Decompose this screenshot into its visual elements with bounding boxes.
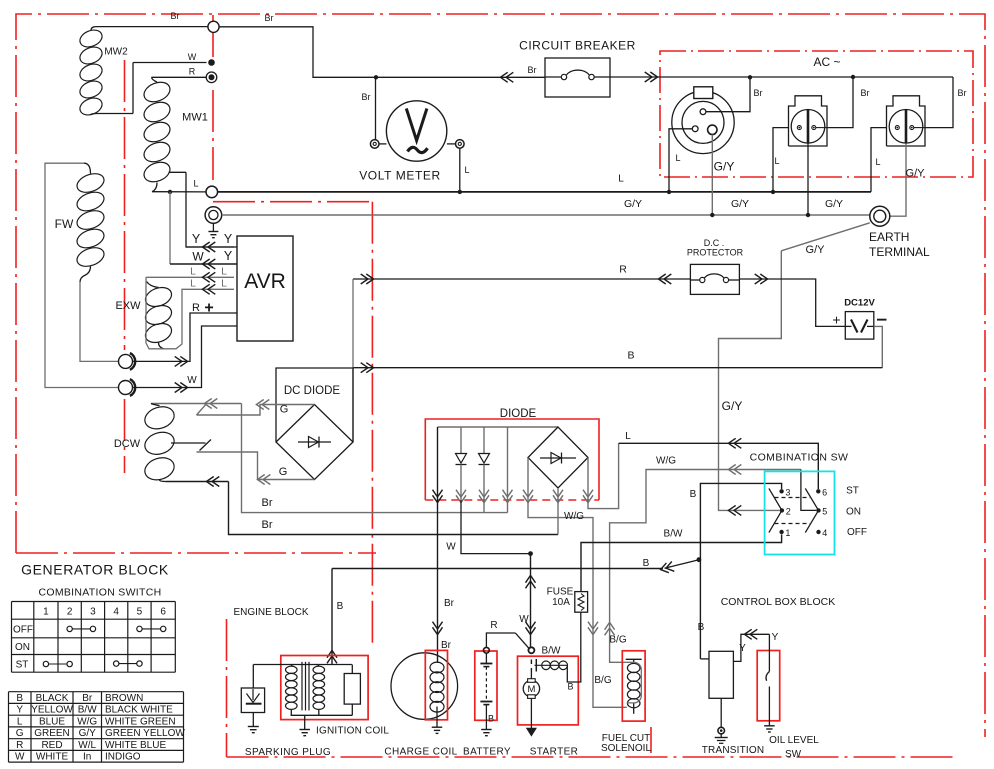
svg-text:MW1: MW1 xyxy=(182,112,208,124)
arrow B diagonal xyxy=(666,562,674,572)
svg-text:B: B xyxy=(698,622,705,633)
svg-text:L: L xyxy=(464,165,469,175)
svg-text:L: L xyxy=(675,153,680,163)
svg-text:Y: Y xyxy=(772,632,779,643)
svg-text:CIRCUIT BREAKER: CIRCUIT BREAKER xyxy=(519,39,636,53)
node B junction xyxy=(697,557,702,562)
svg-text:YELLOW: YELLOW xyxy=(31,705,73,716)
winding EXW xyxy=(143,282,174,349)
wire outlet3 bar to earth terminal xyxy=(890,143,906,216)
node outlet2-L junction xyxy=(771,190,775,194)
svg-text:G: G xyxy=(279,466,288,478)
wire bridge2 right to L line xyxy=(588,443,619,508)
winding MW1 xyxy=(141,77,186,191)
diode bridge diamond 2 xyxy=(528,427,588,488)
svg-text:WHITE BLUE: WHITE BLUE xyxy=(105,740,166,751)
oil level switch contact xyxy=(766,634,769,726)
svg-text:G/Y: G/Y xyxy=(624,198,642,210)
node Br tap outlet2 xyxy=(851,75,855,79)
switch coupling dashed links xyxy=(775,498,810,524)
node outlet1-L junction xyxy=(667,190,671,194)
wire MW1 bottom to L terminal xyxy=(152,191,206,193)
svg-text:COMBINATION SW: COMBINATION SW xyxy=(750,452,849,464)
label FUSE 10A xyxy=(547,587,574,608)
arrow W down xyxy=(526,622,536,629)
arrow bridge-right xyxy=(583,490,593,497)
labels G/Y on ground line xyxy=(624,198,843,210)
arrow Y xyxy=(750,629,757,639)
svg-text:DCW: DCW xyxy=(114,438,141,450)
svg-text:BATTERY: BATTERY xyxy=(463,747,511,758)
battery red box xyxy=(475,651,497,720)
wire DCW middle tap with break xyxy=(171,440,211,451)
node W junction xyxy=(528,551,533,556)
starter contact gap xyxy=(530,660,532,681)
svg-text:AC ~: AC ~ xyxy=(813,55,840,69)
winding MW2 xyxy=(77,27,206,118)
wire diode leg 1 (to charge coil) xyxy=(437,427,439,663)
battery cell symbol xyxy=(480,653,492,729)
svg-text:STARTER: STARTER xyxy=(530,747,579,758)
svg-text:ST: ST xyxy=(846,486,859,497)
svg-text:+: + xyxy=(204,300,213,317)
node L/voltmeter junction xyxy=(458,190,462,194)
svg-text:B: B xyxy=(690,489,697,500)
svg-text:SOLENOIL: SOLENOIL xyxy=(601,743,651,754)
svg-text:B: B xyxy=(16,693,23,704)
wire G/Y down to combination switch xyxy=(719,251,782,511)
svg-text:OFF: OFF xyxy=(847,527,867,538)
svg-text:D.C .: D.C . xyxy=(704,238,725,248)
wire EXW top to AVR L input xyxy=(146,277,234,349)
svg-text:Br: Br xyxy=(171,11,180,21)
svg-text:DC12V: DC12V xyxy=(844,298,875,309)
svg-text:INDIGO: INDIGO xyxy=(105,752,141,763)
node outlet2-GY junction xyxy=(806,213,810,217)
wire grey Br riser (DCW top to diode block) xyxy=(242,404,508,513)
label - xyxy=(877,319,887,321)
svg-text:G/Y: G/Y xyxy=(722,399,743,413)
wire DCW bottom lead to Br line xyxy=(166,482,558,535)
wire FW bottom lead to connector 1 xyxy=(80,282,118,361)
op-amp block AVR (regulator box) xyxy=(237,236,293,341)
wire AVR W input xyxy=(234,325,237,327)
arrow row Y xyxy=(208,242,215,252)
svg-text:VOLT METER: VOLT METER xyxy=(359,169,441,183)
arrow B ignition xyxy=(327,656,337,663)
wire L line (main) xyxy=(218,191,871,193)
svg-text:W: W xyxy=(15,752,25,763)
svg-text:Br: Br xyxy=(82,693,93,704)
ground starter (arrow) xyxy=(527,728,536,735)
svg-text:B/W: B/W xyxy=(542,646,561,657)
volt meter V xyxy=(386,101,446,161)
wire W/G to combination switch pin5 xyxy=(610,470,817,663)
svg-text:1: 1 xyxy=(785,528,790,538)
svg-text:W: W xyxy=(446,542,456,553)
arrow G top wire xyxy=(262,400,269,410)
wire B to ignition coil xyxy=(331,569,333,665)
arrow W/G down xyxy=(588,622,598,629)
ground under G/Y terminal xyxy=(208,223,218,237)
charge coil winding xyxy=(430,662,444,727)
wire DC12V minus to B line xyxy=(874,326,883,367)
svg-text:G: G xyxy=(16,728,24,739)
volt meter left terminal xyxy=(370,140,386,149)
fuel cut solenoid coil xyxy=(626,659,642,714)
wire B diagonal switch contact xyxy=(665,560,699,569)
arrow row L1 xyxy=(208,272,215,282)
svg-text:OIL LEVEL: OIL LEVEL xyxy=(769,735,819,746)
svg-text:W: W xyxy=(519,614,529,625)
DC12V outlet box xyxy=(845,312,874,340)
svg-text:G: G xyxy=(280,404,289,416)
outlet socket 2 (square) xyxy=(789,96,828,146)
svg-text:G/Y: G/Y xyxy=(806,244,826,256)
svg-text:OFF: OFF xyxy=(13,625,33,636)
wire Br terminal to circuit breaker line xyxy=(219,27,545,78)
svg-text:Y: Y xyxy=(739,643,746,654)
arrow bridge-bottom xyxy=(553,490,563,497)
svg-text:5: 5 xyxy=(137,607,143,618)
wire EXW bottom to AVR L input xyxy=(170,289,234,349)
svg-text:BLUE: BLUE xyxy=(39,717,65,728)
terminal R (dot with ring) xyxy=(206,72,217,83)
wire B line (rectifier box to DC12V) xyxy=(353,367,882,369)
wire W from diode D1 to starter xyxy=(461,500,531,554)
wire outlet3 left pin to L line end xyxy=(871,128,887,192)
wire Br from MW2 to terminal xyxy=(96,26,208,28)
svg-text:R: R xyxy=(619,264,627,276)
starter solenoid coil xyxy=(535,659,568,672)
oil level switch red box xyxy=(757,651,780,721)
outlet socket 3 (square) xyxy=(887,96,926,146)
svg-text:2: 2 xyxy=(67,607,73,618)
starter red box xyxy=(518,656,579,725)
terminal G/Y (double circle) xyxy=(205,207,222,224)
svg-text:Br: Br xyxy=(262,497,273,509)
wire breaker to AC outlets xyxy=(610,76,953,78)
wire colour legend table xyxy=(9,692,186,763)
svg-text:B: B xyxy=(488,714,494,724)
ground charge coil xyxy=(432,726,443,728)
charge coil red box xyxy=(425,650,447,719)
arrow DCW top xyxy=(210,399,217,409)
arrow on W wire xyxy=(175,383,182,393)
svg-text:W/G: W/G xyxy=(564,511,584,522)
svg-text:B/W: B/W xyxy=(664,529,683,540)
arrow W/G switch xyxy=(734,465,741,475)
wire W/G from bridge2 left to fuel cut solenoid xyxy=(528,458,627,708)
arrow bridge-left xyxy=(523,490,533,497)
fuse box xyxy=(575,592,588,613)
ground sparking plug xyxy=(248,713,259,733)
svg-text:Y: Y xyxy=(16,705,23,716)
svg-text:W: W xyxy=(187,375,197,386)
ground oil level switch xyxy=(764,725,775,727)
svg-text:BLACK: BLACK xyxy=(36,693,69,704)
svg-text:BROWN: BROWN xyxy=(105,693,143,704)
svg-text:ENGINE BLOCK: ENGINE BLOCK xyxy=(233,607,308,618)
DC protector box xyxy=(690,264,739,294)
wire W to starter xyxy=(530,554,532,648)
connector terminal pair 1 (circle with contact arc) xyxy=(119,353,136,370)
wire AVR input row Y xyxy=(186,246,237,248)
svg-text:SW: SW xyxy=(785,749,802,760)
wire volt meter right to L line xyxy=(459,148,461,192)
switch pin 3 xyxy=(779,489,783,493)
svg-text:L: L xyxy=(193,179,198,189)
svg-text:B: B xyxy=(337,601,344,612)
wire bridge2 bottom to DCW Br line xyxy=(557,488,559,535)
svg-text:DIODE: DIODE xyxy=(500,408,537,420)
arrow before protector xyxy=(664,274,671,284)
arrow G bottom wire xyxy=(263,475,270,485)
label D.C. PROTECTOR xyxy=(687,238,744,258)
svg-text:R: R xyxy=(189,67,196,77)
wire R from MW1 top to terminal R xyxy=(152,76,207,78)
arrow row W xyxy=(208,259,215,269)
svg-text:L: L xyxy=(618,174,624,185)
node outlet1-GY junction xyxy=(710,213,714,217)
wire outlet1 left pin to L line xyxy=(669,129,692,192)
svg-text:Y: Y xyxy=(192,232,201,246)
svg-text:3: 3 xyxy=(785,487,790,497)
svg-text:Br: Br xyxy=(528,65,537,75)
svg-text:4: 4 xyxy=(113,607,119,618)
svg-text:L: L xyxy=(774,156,779,166)
wire G/Y earth diagonal xyxy=(781,223,870,251)
wire volt meter left to Br line xyxy=(375,77,377,139)
label FUEL CUT SOLENOIL xyxy=(601,733,651,754)
terminal L (open circle) xyxy=(206,186,218,198)
svg-text:R: R xyxy=(490,620,497,631)
svg-text:B/W: B/W xyxy=(78,705,97,716)
wire G/Y line (main) xyxy=(222,214,870,216)
diode D2 xyxy=(479,427,490,513)
svg-text:6: 6 xyxy=(160,607,166,618)
transition ground terminal xyxy=(715,727,728,743)
svg-text:ST: ST xyxy=(16,660,29,671)
DIODE block red box xyxy=(425,406,599,500)
svg-text:FW: FW xyxy=(55,217,74,231)
svg-text:SPARKING PLUG: SPARKING PLUG xyxy=(245,747,331,758)
wire W connector2 to AVR xyxy=(133,326,234,388)
svg-text:MW2: MW2 xyxy=(104,47,128,58)
svg-text:B: B xyxy=(567,682,573,692)
svg-text:GREEN YELLOW: GREEN YELLOW xyxy=(105,728,185,739)
svg-text:COMBINATION SWITCH: COMBINATION SWITCH xyxy=(38,587,161,599)
svg-text:WHITE GREEN: WHITE GREEN xyxy=(105,717,176,728)
svg-text:L: L xyxy=(17,717,23,728)
outlet socket 1 (round) xyxy=(672,87,734,154)
svg-text:4: 4 xyxy=(822,528,827,538)
svg-text:Br: Br xyxy=(362,92,371,102)
wire FW top lead to connector 2 xyxy=(45,163,118,387)
svg-text:W/G: W/G xyxy=(77,717,97,728)
engine block boundary (red dash-dot) xyxy=(227,619,956,757)
ignition coil transformer xyxy=(253,662,360,716)
svg-text:W: W xyxy=(188,52,197,62)
svg-text:W/G: W/G xyxy=(656,456,676,467)
DC DIODE box xyxy=(276,368,353,442)
terminal W (black dot) xyxy=(208,59,215,66)
arrow on R line start xyxy=(361,274,368,284)
arrow W up xyxy=(526,581,536,588)
svg-text:TRANSITION: TRANSITION xyxy=(702,745,765,756)
wire solenoid to fuse xyxy=(567,612,581,682)
svg-text:WHITE: WHITE xyxy=(36,752,69,763)
earth terminal (double circle) xyxy=(870,206,890,226)
wire Br end to outlet3 right pin xyxy=(925,77,953,128)
switch pin 6 xyxy=(816,489,820,493)
arrow on B line xyxy=(361,363,368,373)
svg-text:G/Y: G/Y xyxy=(79,728,97,739)
node Br tap outlet1 xyxy=(748,75,752,79)
wire B/W from fuse to pin1 xyxy=(581,535,782,592)
arrow DCW bottom xyxy=(212,477,219,487)
switch pin 4 xyxy=(816,530,820,534)
svg-text:GENERATOR BLOCK: GENERATOR BLOCK xyxy=(21,562,169,578)
svg-text:3: 3 xyxy=(90,607,96,618)
svg-text:B/G: B/G xyxy=(609,635,626,646)
charge coil circle xyxy=(391,653,458,720)
wire G from DCW to bridge1 (top) xyxy=(197,405,315,416)
svg-text:BLACK WHITE: BLACK WHITE xyxy=(105,705,173,716)
wire R+ connector1 to AVR xyxy=(133,313,234,361)
svg-text:AVR: AVR xyxy=(244,270,286,293)
circuit breaker box xyxy=(545,58,610,97)
wire diode bus xyxy=(438,426,559,428)
svg-text:L: L xyxy=(221,266,227,278)
wire rectifier output R riser xyxy=(352,279,354,442)
wire R battery to starter xyxy=(486,633,528,648)
wire MW1 tap to AVR Y input xyxy=(186,172,234,247)
volt meter right terminal xyxy=(447,140,464,149)
combination switch state table xyxy=(12,602,176,673)
wire transition to ground terminal xyxy=(720,698,722,727)
svg-text:PROTECTOR: PROTECTOR xyxy=(687,248,744,258)
arrow B/G up xyxy=(605,628,615,635)
label EARTH TERMINAL xyxy=(869,230,930,259)
svg-text:Br: Br xyxy=(754,88,763,98)
svg-text:Br: Br xyxy=(441,640,452,651)
svg-text:Y: Y xyxy=(224,232,233,246)
svg-text:Br: Br xyxy=(265,13,274,23)
svg-text:L: L xyxy=(190,266,196,278)
sparking plug box xyxy=(241,688,264,713)
svg-text:Br: Br xyxy=(444,598,455,609)
svg-text:EXW: EXW xyxy=(115,300,141,312)
svg-text:10A: 10A xyxy=(552,597,570,608)
wire R line from rectifier to DC protector xyxy=(353,278,690,280)
svg-text:M: M xyxy=(527,684,535,695)
svg-text:1: 1 xyxy=(43,607,49,618)
svg-text:L: L xyxy=(875,157,880,167)
arrow before breaker xyxy=(506,72,513,82)
wire L to combination switch pin6 xyxy=(619,443,819,489)
svg-text:W: W xyxy=(192,250,204,264)
wire diode leg 4 xyxy=(507,427,509,513)
diode bridge diamond 1 xyxy=(276,405,353,480)
arrow after protector xyxy=(755,274,762,284)
diode D1 xyxy=(456,427,467,500)
combination switch outline (cyan) xyxy=(765,471,835,554)
switch arm left xyxy=(769,488,782,532)
svg-text:G/Y: G/Y xyxy=(731,198,749,210)
arrow leg1 engine xyxy=(433,622,443,629)
switch pin 1 xyxy=(779,530,783,534)
arrow on R+ wire xyxy=(175,356,182,366)
ground battery xyxy=(481,729,492,731)
wire B engine to control junction xyxy=(332,568,663,570)
svg-text:TERMINAL: TERMINAL xyxy=(869,245,930,259)
wire AVR input row W (from L line junction) xyxy=(170,192,237,264)
svg-text:L: L xyxy=(221,278,227,290)
starter motor M xyxy=(523,679,539,699)
switch pin 2 xyxy=(780,508,784,512)
svg-text:W/L: W/L xyxy=(78,740,96,751)
svg-text:DC DIODE: DC DIODE xyxy=(284,385,341,397)
switch pin 5 xyxy=(816,508,820,512)
fuel cut solenoid red box xyxy=(622,651,645,721)
svg-text:R: R xyxy=(192,302,200,314)
svg-text:Br: Br xyxy=(958,88,967,98)
node junction on L wire xyxy=(168,190,172,194)
svg-text:In: In xyxy=(83,752,91,763)
svg-text:ON: ON xyxy=(15,642,30,653)
wire ignition to sparking plug xyxy=(252,665,254,689)
starter terminal circle xyxy=(528,647,534,653)
wire starter motor to ground xyxy=(530,698,532,728)
winding DCW xyxy=(142,403,177,483)
node Br/voltmeter junction xyxy=(374,75,378,79)
arrow leg4 xyxy=(503,490,513,497)
ground ignition coil xyxy=(299,715,310,735)
wire protector to DC12V plus xyxy=(740,279,846,326)
svg-text:L: L xyxy=(190,278,196,290)
svg-text:+: + xyxy=(832,312,840,328)
svg-text:Br: Br xyxy=(861,88,870,98)
svg-text:G/Y: G/Y xyxy=(714,160,735,174)
wire outlet1 right pin to G/Y line xyxy=(711,135,713,215)
ignition coil red box xyxy=(281,656,368,720)
wire Y transition to oil level switch xyxy=(733,634,769,661)
svg-text:Br: Br xyxy=(262,519,273,531)
svg-text:CONTROL BOX BLOCK: CONTROL BOX BLOCK xyxy=(721,596,836,608)
terminal Br (open circle) xyxy=(208,21,219,32)
svg-text:2: 2 xyxy=(786,506,791,516)
svg-text:GREEN: GREEN xyxy=(34,728,70,739)
arrow leg3 xyxy=(479,490,489,497)
label R + xyxy=(192,300,214,317)
transition box xyxy=(700,651,733,698)
arrow G/Y to pin2 xyxy=(734,505,741,515)
svg-text:B: B xyxy=(627,350,634,362)
wire DCW top lead xyxy=(151,403,242,405)
svg-text:R: R xyxy=(16,740,23,751)
wire G from DCW tap to bridge1 bottom xyxy=(197,452,315,480)
svg-text:CHARGE COIL: CHARGE COIL xyxy=(384,747,457,758)
label OIL LEVEL SW xyxy=(769,735,819,760)
winding FW xyxy=(74,163,106,282)
arrow after breaker xyxy=(645,72,652,82)
arrow row L2 xyxy=(208,284,215,294)
svg-text:6: 6 xyxy=(822,487,827,497)
svg-text:5: 5 xyxy=(822,506,827,516)
svg-text:EARTH: EARTH xyxy=(869,230,909,244)
wire outlet2 bar to G/Y line xyxy=(807,143,809,215)
